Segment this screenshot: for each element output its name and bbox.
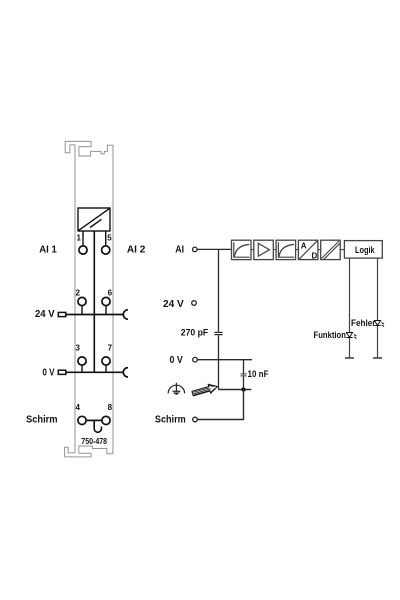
pin 7 stem [105,365,107,372]
0V jumper receptacle arc [123,368,128,377]
svg-text:24 V: 24 V [35,309,55,320]
24V jumper receptacle arc [123,310,128,319]
AI wire [197,248,231,250]
svg-text:AI: AI [175,245,184,256]
svg-text:4: 4 [76,403,81,412]
Schirm terminal circle [193,417,198,422]
svg-text:5: 5 [107,234,112,243]
pin 2 [78,297,86,305]
isolation box [321,240,341,260]
ground junction wire [219,389,252,391]
Fehler line end bar [373,357,382,359]
shield spring hook [94,420,101,432]
svg-text:Funktion: Funktion [314,330,346,340]
0V jumper contact rect [58,370,66,374]
wire pin5 stem [105,231,107,246]
svg-text:24 V: 24 V [163,299,184,310]
svg-text:A: A [301,242,307,251]
wire box2-box3 [273,249,276,251]
pin 1 [79,246,87,254]
24V bus line [66,314,124,316]
svg-text:3: 3 [76,344,81,353]
capacitor 10nF plates [241,374,247,376]
capacitor C1 270pF plates [214,332,222,334]
svg-text:0 V: 0 V [42,367,54,378]
svg-text:0 V: 0 V [170,355,183,366]
amplifier box [254,240,273,259]
branch wire below cap [218,335,220,389]
svg-text:750-478: 750-478 [81,437,107,446]
filter box F1 [232,240,252,259]
svg-text:Logik: Logik [355,245,375,255]
svg-text:10 nF: 10 nF [248,369,270,379]
converter U1 box [78,208,110,231]
svg-text:Fehler: Fehler [351,318,376,328]
AI terminal circle [193,247,198,252]
svg-text:AI 1: AI 1 [39,245,57,256]
pin 4 [78,416,86,424]
wire box3-box4 [296,249,299,251]
wire box1-box2 [251,249,254,251]
junction dot [241,387,245,391]
0V bus line [66,371,124,373]
pin 2 stem [81,306,83,315]
module top profile [65,141,113,453]
svg-text:1: 1 [77,234,82,243]
functional earth symbol [168,383,184,395]
LED Funktion [346,333,356,339]
svg-text:270 pF: 270 pF [181,328,209,338]
wire pin1 stem [82,231,84,246]
wire box4-box5 [318,249,321,251]
wire logik to Fehler LED [377,258,379,358]
svg-text:6: 6 [108,289,113,298]
0V terminal circle [193,357,198,362]
pin 7 [102,357,110,365]
module bottom profile [65,446,113,457]
svg-text:8: 8 [108,403,113,412]
svg-text:2: 2 [76,289,81,298]
wire middle signal [93,231,95,372]
filter box F2 [276,240,296,259]
svg-text:7: 7 [108,344,113,353]
24V terminal circle [192,301,197,306]
wire box5-logik [340,249,344,251]
svg-text:D: D [312,251,318,260]
svg-text:Schirm: Schirm [155,415,186,426]
0V wire [197,359,252,361]
shield arrow symbol [191,382,218,398]
24V jumper contact rect [58,312,66,316]
svg-text:AI 2: AI 2 [127,245,146,256]
pin 5 [102,246,110,254]
pins 4-8 link wire [86,419,102,421]
pin 3 [78,357,86,365]
Schirm wire [197,390,243,420]
pin 6 stem [105,306,107,315]
pin 6 [102,297,110,305]
Logik box [344,241,382,259]
pin 8 [102,416,110,424]
LED Fehler [374,321,384,327]
Funktion line end bar [345,357,354,359]
10nF branch wire [243,360,245,390]
wire logik to Funktion LED [349,258,351,358]
A/D converter box [298,240,318,259]
branch wire down to 270pF [218,249,220,331]
pin 3 stem [81,365,83,372]
svg-text:Schirm: Schirm [26,415,58,426]
